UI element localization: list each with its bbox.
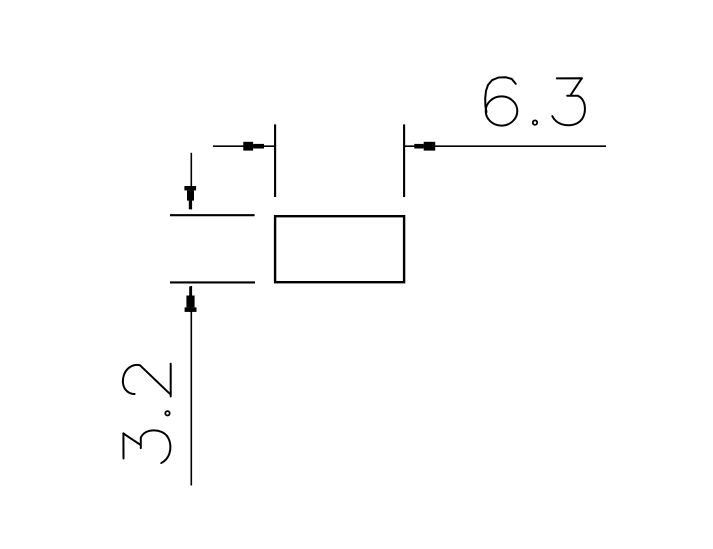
digit 3 [552, 78, 585, 125]
arrowhead bottom (points up) [185, 286, 197, 312]
arrowhead top (points down) [184, 186, 196, 209]
digit 3 [123, 430, 170, 463]
arrowhead left (points right) [243, 142, 264, 151]
dimension line 6.3 right segment [404, 145, 606, 147]
decimal point [165, 411, 169, 415]
extension line right (width dim) [403, 124, 405, 197]
digit 6 [485, 77, 516, 112]
extension line bottom (height dim) [170, 281, 255, 283]
digit 2 [123, 364, 171, 397]
part outline rectangle [275, 216, 404, 282]
dimension text 3.2 (rotated 90 ccw) [123, 364, 171, 463]
extension line left (width dim) [274, 124, 276, 197]
dimension line 3.2 top segment [190, 153, 192, 210]
extension line top (height dim) [170, 214, 255, 216]
dimension line 3.2 bottom segment [190, 286, 192, 486]
arrowhead right (points left) [414, 142, 435, 151]
dimension text 6.3 [485, 77, 585, 125]
decimal point [533, 120, 537, 124]
dimension line 6.3 left segment [213, 145, 275, 147]
